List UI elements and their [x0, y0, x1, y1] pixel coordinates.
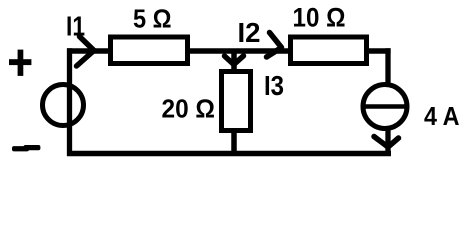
svg-text:I2: I2	[238, 17, 261, 48]
minus sign of source	[12, 146, 29, 151]
resistor R1 5 ohm	[111, 37, 188, 64]
resistor R2 20 ohm	[222, 72, 251, 131]
current source I4 circle	[363, 85, 407, 129]
current source chord	[364, 104, 407, 109]
arrow I1	[77, 37, 95, 67]
wire top horizontal	[67, 48, 391, 54]
arrow I2	[267, 33, 282, 58]
wire right vertical	[385, 48, 390, 156]
wire left vertical	[67, 48, 72, 156]
svg-text:4 A: 4 A	[424, 101, 460, 131]
svg-text:10 Ω: 10 Ω	[293, 3, 346, 33]
svg-text:I3: I3	[264, 70, 284, 101]
plus sign of source	[9, 59, 31, 65]
svg-text:I1: I1	[66, 11, 85, 42]
svg-text:5 Ω: 5 Ω	[133, 4, 172, 34]
resistor R3 10 ohm	[291, 37, 367, 64]
current source arrow down	[374, 137, 399, 148]
arrow I3	[225, 56, 244, 65]
voltage source V1 circle	[43, 85, 84, 126]
wire bottom horizontal	[67, 151, 391, 156]
svg-text:20 Ω: 20 Ω	[162, 93, 216, 123]
wire middle vertical branch	[231, 51, 237, 154]
